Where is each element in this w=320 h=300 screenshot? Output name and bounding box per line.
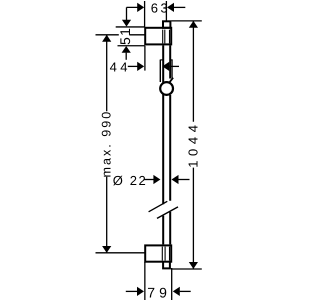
break symbol: two diagonal lines across shortened tube <box>149 201 178 218</box>
bottom wall bracket <box>145 245 171 261</box>
top wall bracket <box>145 28 171 45</box>
slider sleeve on tube <box>160 60 172 82</box>
top end cap of tube <box>163 21 170 28</box>
extension line right of dimension 63 (tube centerline) <box>165 1 167 21</box>
dimension 51: wall bracket height, arrows outside pointing inward <box>116 20 145 60</box>
dimension 1044: overall bar length, vertical dimension at right <box>171 21 202 269</box>
extension line left of dimension 63 (wall bracket left face) <box>144 1 146 27</box>
wall bar tube: left and right edges <box>163 45 170 244</box>
dimension 44: wall face to tube, leader with arrows <box>110 46 179 75</box>
svg-text:44: 44 <box>110 60 131 75</box>
svg-text:79: 79 <box>147 285 171 300</box>
dimension max. 990: slider travel, vertical dimension at left <box>96 35 145 253</box>
dimension Ø 22: tube diameter, leaders with arrows both sides <box>113 173 190 188</box>
dimension 63: top width, bent dimension line with inward arrows <box>127 1 186 21</box>
dimension 79: bottom bracket width <box>126 262 191 300</box>
svg-text:1044: 1044 <box>185 120 200 167</box>
svg-text:Ø 22: Ø 22 <box>113 173 148 188</box>
slider knob circle <box>160 82 173 95</box>
bottom end cap of tube <box>162 263 171 269</box>
svg-text:51: 51 <box>117 27 133 45</box>
svg-text:max. 990: max. 990 <box>99 110 113 178</box>
svg-text:63: 63 <box>151 1 170 16</box>
slider release lever notch <box>170 78 174 83</box>
